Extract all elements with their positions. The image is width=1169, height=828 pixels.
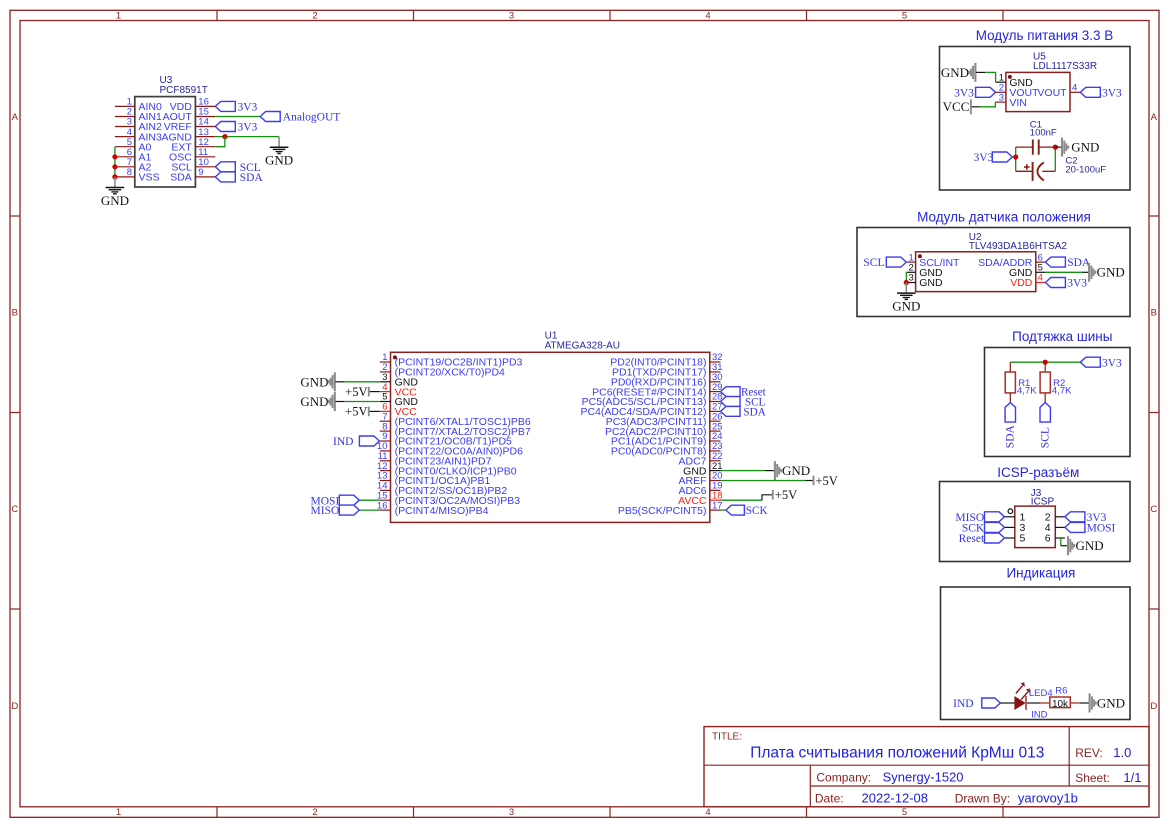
junction U3 pin8: [112, 174, 117, 179]
wire R6 to GND: [1080, 702, 1089, 704]
wire U1 pin16 MISO: [359, 509, 380, 511]
U2 pin 4 VDD: [1010, 273, 1045, 290]
svg-text:8: 8: [127, 167, 132, 178]
U5 pin 1 GND: [996, 72, 1034, 89]
svg-text:3V3: 3V3: [238, 102, 258, 114]
svg-text:GND: GND: [1097, 695, 1125, 710]
junction U3 pin6: [112, 154, 117, 159]
junction U3 pin7: [112, 164, 117, 169]
U1 pin 7 (PCINT6/XTAL1/TOSC1)PB6: [380, 411, 531, 428]
svg-text:GND: GND: [1071, 139, 1099, 154]
U3 pin 3 AIN2: [115, 117, 162, 134]
wire U5 pin1 to GND: [976, 71, 985, 73]
U2 pin 1 SCL/INT: [906, 252, 960, 269]
wire U3 AOUT: [215, 116, 260, 118]
svg-text:VIN: VIN: [1009, 97, 1027, 109]
U1 pin 1 (PCINT19/OC2B/INT1)PD3: [380, 352, 523, 369]
module box position sensor: [857, 228, 1130, 317]
J3 pin 3: [1005, 522, 1026, 534]
IC U1 body: [391, 352, 710, 522]
svg-text:Модуль питания 3.3 В: Модуль питания 3.3 В: [976, 28, 1114, 43]
label Reset at J3 pin5: [959, 533, 1005, 545]
label AnalogOUT at U3 AOUT: [260, 112, 340, 124]
svg-text:B: B: [12, 308, 18, 319]
U1 pin 16 (PCINT4/MISO)PB4: [377, 500, 489, 517]
svg-text:GND: GND: [782, 463, 810, 478]
svg-text:R6: R6: [1055, 686, 1067, 697]
row ticks left: [10, 215, 20, 217]
svg-text:IND: IND: [1031, 709, 1048, 720]
wire U1 pin5 GND: [335, 401, 344, 403]
svg-text:10k: 10k: [1052, 699, 1069, 710]
svg-text:2: 2: [312, 807, 317, 818]
svg-text:3: 3: [509, 10, 514, 21]
wire U2 pins 2-3 tie: [905, 272, 907, 282]
label MISO at U1 pin16: [311, 505, 360, 517]
U1 pin 17 PB5(SCK/PCINT5): [618, 500, 723, 517]
U1 pin 18 AVCC: [678, 490, 722, 507]
junction at C1 right: [1053, 145, 1058, 150]
svg-text:B: B: [1151, 308, 1157, 319]
U3 pin 13 AGND: [161, 127, 215, 144]
U1 pin 27 PC4(ADC4/SDA/PCINT12): [580, 402, 722, 419]
junction pullup R2 top: [1043, 360, 1048, 365]
svg-text:A: A: [12, 112, 19, 123]
wire 3V3 to capacitors: [1012, 156, 1015, 158]
U3 pin 14 VREF: [164, 117, 216, 134]
label IND at LED: [953, 698, 1000, 710]
svg-text:VCC: VCC: [943, 99, 970, 114]
svg-text:4: 4: [1038, 273, 1043, 284]
wire U1 pin21 GND: [721, 470, 766, 472]
wire J3 pin6 GND: [1060, 538, 1062, 546]
svg-text:SDA: SDA: [170, 172, 192, 184]
module box indication: [941, 587, 1131, 720]
svg-text:SDA: SDA: [240, 172, 264, 184]
svg-text:Плата считывания положений КрМ: Плата считывания положений КрМш 013: [750, 745, 1044, 762]
U1 pin 12 (PCINT0/CLKO/ICP1)PB0: [377, 461, 517, 478]
junction U3 AGND-EXT: [222, 134, 227, 139]
wire U1 pin17 SCK: [721, 509, 726, 511]
column ticks bottom: [216, 807, 218, 818]
svg-text:VOUT: VOUT: [1037, 87, 1067, 99]
U5 pin 3 VIN: [995, 92, 1027, 109]
svg-text:3V3: 3V3: [1102, 357, 1122, 369]
module box ICSP: [940, 482, 1131, 562]
U1 pin 31 PD1(TXD/PCINT17): [612, 362, 723, 379]
svg-text:5: 5: [902, 10, 907, 21]
U1 pin 28 PC5(ADC5/SCL/PCINT13): [582, 392, 723, 409]
U3 pin 11 OSC: [169, 147, 215, 164]
svg-text:IND: IND: [333, 436, 353, 448]
label MISO at J3 pin1: [955, 512, 1004, 524]
wire capacitor right vertical: [1054, 147, 1056, 171]
svg-text:1/1: 1/1: [1123, 770, 1141, 785]
svg-text:SCL: SCL: [863, 257, 884, 269]
resistor R6 10k: [1040, 697, 1080, 710]
wire capacitor left vertical: [1015, 147, 1017, 171]
svg-text:IND: IND: [953, 698, 973, 710]
U5 pin 1 marker dot: [1008, 75, 1012, 79]
svg-text:4,7K: 4,7K: [1017, 386, 1037, 397]
svg-text:TITLE:: TITLE:: [712, 732, 742, 743]
column labels top: [116, 10, 907, 21]
svg-text:+5V: +5V: [345, 385, 367, 399]
title block vertical divider left: [809, 765, 811, 807]
svg-text:D: D: [11, 701, 18, 712]
label IND at U1 pin9: [333, 436, 379, 448]
svg-text:GND: GND: [300, 374, 328, 389]
label SCL at U3 pin10: [215, 162, 260, 174]
U2 pin 3 GND: [906, 273, 943, 290]
svg-text:GND: GND: [101, 193, 129, 208]
J3 pin 4: [1045, 522, 1065, 534]
label SDA at U1 pin27: [721, 406, 766, 418]
wire LED4 to R6: [1027, 702, 1040, 704]
svg-text:C: C: [1150, 504, 1157, 515]
U5 pin 2 VOUT: [996, 83, 1040, 100]
U1 pin 4 VCC: [380, 382, 417, 399]
label MOSI at J3 pin4: [1065, 522, 1116, 534]
svg-text:100nF: 100nF: [1030, 127, 1057, 138]
svg-text:4: 4: [705, 807, 710, 818]
label SCL at U1 pin28: [721, 397, 766, 409]
label MOSI at U1 pin15: [311, 495, 360, 507]
svg-text:4,7K: 4,7K: [1052, 386, 1072, 397]
U1 pin 11 (PCINT23/AIN1)PD7: [378, 451, 492, 468]
U1 pin 13 (PCINT1/OC1A)PB1: [377, 471, 491, 488]
U1 pin 20 AREF: [678, 471, 722, 488]
wire U1 pin20 AREF: [721, 480, 806, 482]
U1 pin 14 (PCINT2/SS/OC1B)PB2: [377, 481, 507, 498]
power symbol GND at J3 pin6: [1068, 536, 1104, 555]
svg-text:GND: GND: [265, 153, 293, 168]
power symbol GND at R6: [1090, 694, 1125, 713]
svg-text:3V3: 3V3: [238, 122, 258, 134]
U1 pin 15 (PCINT3/OC2A/MOSI)PB3: [377, 490, 520, 507]
U1 pin 6 VCC: [380, 402, 417, 419]
svg-text:VDD: VDD: [1010, 277, 1033, 289]
svg-text:Drawn By:: Drawn By:: [955, 791, 1010, 805]
svg-text:(PCINT4/MISO)PB4: (PCINT4/MISO)PB4: [395, 505, 489, 517]
U1 pin 8 (PCINT7/XTAL2/TOSC2)PB7: [380, 421, 531, 438]
svg-text:LDL1117S33R: LDL1117S33R: [1033, 61, 1097, 72]
ground symbol at U3 AGND: [265, 137, 293, 168]
svg-text:SCK: SCK: [746, 505, 768, 517]
J3 pin 1: [1005, 512, 1026, 524]
U3 pin 15 AOUT: [163, 107, 216, 124]
module box power supply 3.3V: [940, 47, 1131, 191]
wire C1 to GND: [1055, 146, 1061, 148]
U3 pin 16 VDD: [170, 97, 216, 114]
label 3V3 at U5 pin4: [1080, 87, 1122, 99]
U3 pin 1 AIN0: [115, 97, 162, 114]
svg-text:4: 4: [705, 10, 710, 21]
U1 pin 1 marker dot: [393, 355, 397, 359]
power symbol GND at capacitors: [1062, 138, 1099, 157]
svg-text:PCF8591T: PCF8591T: [160, 85, 208, 96]
wire 3V3 pullup top: [1010, 361, 1080, 363]
U1 pin 32 PD2(INT0/PCINT18): [610, 352, 722, 369]
svg-text:SDA: SDA: [1067, 257, 1091, 269]
power symbol VCC at U5 pin3: [943, 99, 971, 114]
column labels bottom: [116, 807, 907, 818]
J3 pin 5: [1005, 533, 1026, 545]
svg-text:GND: GND: [892, 298, 920, 313]
U1 pin 9 (PCINT21/OC0B/T1)PD5: [380, 431, 512, 448]
svg-text:Reset: Reset: [959, 533, 985, 545]
label SDA below R1: [1005, 403, 1017, 449]
svg-text:GND: GND: [1076, 538, 1104, 553]
label SCK at J3 pin3: [962, 522, 1005, 534]
svg-text:3: 3: [999, 92, 1004, 103]
U5 pin 4 VOUT: [1037, 83, 1080, 100]
U1 pin 23 PC0(ADC0/PCINT8): [611, 441, 723, 458]
svg-text:D: D: [1150, 701, 1157, 712]
svg-text:5: 5: [902, 807, 907, 818]
IC U3 body: [135, 97, 196, 187]
U1 pin 26 PC3(ADC3/PCINT11): [606, 411, 723, 428]
svg-text:+5V: +5V: [345, 405, 367, 419]
svg-text:2022-12-08: 2022-12-08: [862, 790, 929, 805]
U2 pin 1 marker dot: [918, 254, 922, 258]
svg-text:Sheet:: Sheet:: [1075, 771, 1110, 785]
wire U1 pin3 GND: [335, 381, 344, 383]
svg-text:MISO: MISO: [311, 505, 340, 517]
capacitor C1: [1016, 140, 1056, 155]
title block vertical divider right: [1068, 727, 1070, 786]
svg-text:A: A: [1151, 112, 1158, 123]
J3 pin 1 marker circle: [1008, 509, 1013, 514]
svg-text:+5V: +5V: [816, 474, 838, 488]
U3 pin 2 AIN1: [115, 107, 162, 124]
ground symbol below U2: [892, 283, 920, 314]
U2 pin 5 GND: [1009, 263, 1045, 280]
U1 pin 25 PC2(ADC2/PCINT10): [605, 421, 723, 438]
svg-text:1: 1: [116, 807, 121, 818]
J3 pin 2: [1045, 512, 1065, 524]
svg-text:3V3: 3V3: [954, 87, 974, 99]
resistor R2 4.7K: [1040, 362, 1050, 402]
svg-text:3V3: 3V3: [1067, 278, 1087, 290]
svg-text:Модуль датчика положения: Модуль датчика положения: [917, 210, 1091, 225]
svg-text:3V3: 3V3: [1102, 87, 1122, 99]
U3 pin 5 A0: [115, 137, 152, 154]
svg-text:5: 5: [1020, 533, 1026, 545]
svg-text:+5V: +5V: [775, 488, 797, 502]
row labels right: [1150, 112, 1157, 712]
svg-text:GND: GND: [919, 277, 943, 289]
power symbol GND at U5 pin1: [941, 63, 976, 82]
svg-text:1: 1: [116, 10, 121, 21]
U1 pin 29 PC6(RESET#/PCINT14): [592, 382, 722, 399]
svg-text:3V3: 3V3: [973, 152, 993, 164]
title block row divider 2: [810, 785, 1149, 787]
wire U3 EXT tie: [215, 137, 225, 147]
svg-text:Company:: Company:: [816, 770, 871, 784]
U1 pin 2 (PCINT20/XCK/T0)PD4: [380, 362, 505, 379]
label 3V3 at pullups: [1080, 357, 1122, 369]
U3 pin 4 AIN3: [115, 127, 162, 144]
power symbol +5V at U1 pin6: [345, 405, 369, 419]
label SCL below R2: [1040, 403, 1052, 449]
title block outer box: [704, 727, 1149, 807]
svg-text:AnalogOUT: AnalogOUT: [283, 112, 341, 124]
power symbol GND at U2 pin5: [1089, 263, 1125, 282]
svg-text:Synergy-1520: Synergy-1520: [883, 769, 964, 784]
wire U3 A0-A1-A2-VSS bus to ground: [114, 147, 116, 177]
U1 pin 19 ADC6: [678, 481, 722, 498]
label 3V3 at J3 pin2: [1065, 512, 1107, 524]
wire U5 pin3 VCC: [972, 106, 980, 108]
label 3V3 at capacitors: [973, 152, 1012, 164]
svg-text:PB5(SCK/PCINT5): PB5(SCK/PCINT5): [618, 505, 707, 517]
column ticks top: [216, 10, 218, 20]
label 3V3 at U5 pin2: [954, 87, 996, 99]
wire U1 pin18 AVCC: [721, 499, 763, 501]
wire U1 pin4 VCC: [370, 391, 380, 393]
power symbol +5V at U1 pin18: [773, 488, 797, 502]
svg-text:TLV493DA1B6HTSA2: TLV493DA1B6HTSA2: [969, 241, 1068, 252]
svg-text:GND: GND: [1097, 265, 1125, 280]
svg-text:SDA: SDA: [743, 407, 765, 419]
power symbol GND at U1 pin21: [775, 461, 810, 480]
U3 pin 8 VSS: [115, 167, 160, 184]
svg-text:MOSI: MOSI: [1087, 523, 1116, 535]
svg-text:ICSP-разъём: ICSP-разъём: [997, 465, 1079, 480]
power symbol +5V at U1 pin20: [814, 474, 838, 488]
svg-text:yarovoy1b: yarovoy1b: [1018, 790, 1078, 805]
svg-text:Подтяжка шины: Подтяжка шины: [1012, 329, 1112, 344]
label SDA at U2 pin6: [1045, 257, 1091, 269]
connector J3 body: [1015, 506, 1056, 547]
wire U1 pin6 VCC: [370, 410, 380, 412]
U3 pin 6 A1: [115, 147, 152, 164]
svg-text:SDA: SDA: [1005, 424, 1017, 448]
svg-text:REV:: REV:: [1075, 746, 1103, 760]
label 3V3 at U2 pin4: [1045, 278, 1087, 290]
U3 pin 9 SDA: [170, 167, 215, 184]
svg-text:Date:: Date:: [815, 791, 844, 805]
svg-text:1.0: 1.0: [1113, 745, 1131, 760]
U1 pin 5 GND: [380, 392, 419, 409]
svg-text:6: 6: [1045, 533, 1051, 545]
wire U2 pin5 GND: [1045, 271, 1082, 273]
svg-text:VSS: VSS: [139, 172, 160, 184]
svg-text:GND: GND: [941, 65, 969, 80]
label Reset at U1 pin29: [721, 387, 767, 399]
power symbol GND at U1 pin5: [300, 392, 334, 411]
U3 pin 10 SCL: [171, 157, 215, 174]
wire U1 pin15 MOSI: [359, 499, 380, 501]
label SCL at U2 pin1: [863, 257, 906, 269]
resistor R1 4.7K: [1005, 362, 1015, 402]
U1 pin 10 (PCINT22/OC0A/AIN0)PD6: [377, 441, 523, 458]
power symbol +5V at U1 pin4: [345, 385, 369, 399]
svg-text:2: 2: [312, 10, 317, 21]
ground symbol below U3: [101, 177, 129, 208]
svg-text:9: 9: [198, 167, 203, 178]
label SCK at U1 pin17: [726, 505, 768, 517]
IC U2 body: [916, 252, 1036, 292]
wire U3 AGND to ground: [215, 136, 279, 138]
svg-text:ATMEGA328-AU: ATMEGA328-AU: [545, 340, 620, 351]
label SDA at U3 pin9: [215, 172, 263, 184]
IC U5 body: [1006, 72, 1070, 111]
U2 pin 6 SDA/ADDR: [978, 252, 1045, 269]
wire IND to LED4: [1000, 702, 1015, 704]
U1 pin 22 ADC7: [678, 451, 722, 468]
junction at 3V3 capacitor node: [1013, 154, 1018, 159]
svg-text:3: 3: [909, 273, 914, 284]
U1 pin 24 PC1(ADC1/PCINT9): [611, 431, 723, 448]
svg-text:4: 4: [1072, 83, 1077, 94]
power symbol GND at U1 pin3: [300, 372, 334, 391]
label 3V3 at U3 VREF: [215, 122, 257, 134]
svg-text:C: C: [11, 504, 18, 515]
svg-text:Индикация: Индикация: [1006, 565, 1075, 580]
U3 pin 12 EXT: [171, 137, 215, 154]
U1 pin 30 PD0(RXD/PCINT16): [611, 372, 723, 389]
label 3V3 at U3 VDD: [215, 101, 257, 113]
U1 pin 21 GND: [683, 461, 722, 478]
module box bus pull-up: [985, 348, 1131, 457]
svg-text:20-100uF: 20-100uF: [1065, 164, 1106, 175]
U1 pin 3 GND: [380, 372, 419, 389]
svg-text:GND: GND: [300, 394, 328, 409]
J3 pin 6: [1045, 533, 1065, 545]
U3 pin 7 A2: [115, 157, 152, 174]
row ticks right: [1149, 215, 1159, 217]
U2 pin 2 GND: [906, 263, 943, 280]
row labels left: [11, 112, 18, 712]
LED LED4: [1015, 682, 1030, 710]
svg-text:SCL: SCL: [1040, 427, 1052, 448]
junction U2 pin3: [904, 280, 909, 285]
title block row divider 1: [704, 764, 1149, 766]
capacitor C2 polarized: [1016, 162, 1056, 181]
svg-text:3: 3: [509, 807, 514, 818]
